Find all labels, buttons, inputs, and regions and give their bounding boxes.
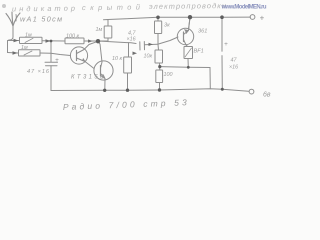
wire: R7 bottom to R8 top bbox=[159, 63, 161, 70]
capacitor C1 47×16 (electrolytic, left) bbox=[45, 61, 58, 63]
wire: BF1 bottom down bbox=[187, 59, 189, 68]
wire: R8 bottom to ground bbox=[159, 83, 161, 91]
svg-text:47: 47 bbox=[231, 58, 238, 64]
svg-text:+: + bbox=[55, 57, 59, 64]
title: индикатор скрытой электропроводки bbox=[12, 1, 226, 13]
wire: top row between R1 and R3 bbox=[42, 40, 65, 42]
arrow on bottom row bbox=[13, 51, 18, 54]
wire: left vertical between rows bbox=[7, 41, 9, 53]
resistor R2 1М (bottom left horizontal) bbox=[19, 50, 41, 56]
resistor R5 10к (vertical mid) bbox=[124, 57, 132, 73]
svg-text:BF1: BF1 bbox=[194, 49, 204, 55]
headphone BF1 bbox=[184, 47, 193, 59]
junction dots bbox=[50, 15, 224, 92]
wire: junction to C2 bbox=[98, 41, 136, 44]
wire: rail to R6 top bbox=[157, 17, 159, 21]
arrow before node bbox=[46, 39, 51, 42]
collector junction node bbox=[96, 39, 100, 43]
corner speck bbox=[2, 4, 6, 8]
wire: VT3 collector to BF1 bbox=[186, 45, 188, 47]
svg-text:100: 100 bbox=[164, 72, 173, 78]
wire: C2 right to node bbox=[145, 43, 158, 46]
svg-text:10 к: 10 к bbox=[112, 56, 122, 62]
arrowheads bbox=[13, 39, 154, 55]
svg-text:10к: 10к bbox=[144, 54, 153, 60]
transistor VT3 КТ361 bbox=[177, 28, 193, 44]
svg-text:1м: 1м bbox=[25, 33, 32, 39]
wire: R6 bottom to node bbox=[157, 34, 160, 51]
wire: C3 bottom to ground bbox=[221, 56, 223, 90]
resistor R1 1М (top left horizontal) bbox=[20, 37, 43, 43]
svg-text:47 ×16: 47 ×16 bbox=[27, 69, 50, 75]
arrow before R7 node bbox=[149, 43, 154, 46]
svg-text:6в: 6в bbox=[263, 92, 271, 99]
svg-text:электропроводки: электропроводки bbox=[149, 1, 226, 11]
svg-text:×16: ×16 bbox=[127, 37, 136, 43]
terminal - (bottom right) bbox=[249, 89, 254, 94]
transistor VT2 КТ315Б bbox=[94, 61, 113, 80]
svg-text:индикатор: индикатор bbox=[12, 4, 75, 14]
svg-text:3к: 3к bbox=[164, 23, 170, 29]
wire: antenna lead to top row bbox=[8, 25, 13, 41]
wire: node to VT3 base bbox=[159, 37, 179, 44]
svg-text:1м: 1м bbox=[96, 27, 103, 33]
arrow after R3 bbox=[88, 39, 93, 42]
wire: output row y67 bbox=[160, 66, 210, 69]
antenna WA1 bbox=[6, 14, 13, 27]
wire: VT3 emitter to rail bbox=[189, 17, 191, 29]
wire: bottom row R2 to base node bbox=[40, 52, 51, 54]
svg-text:+: + bbox=[224, 41, 228, 48]
wire: rail to C3 top bbox=[221, 17, 223, 51]
resistor R7 10к (vertical mid-right) bbox=[155, 50, 163, 63]
svg-text:+: + bbox=[260, 14, 265, 23]
svg-text:1м: 1м bbox=[21, 45, 28, 51]
wire: top rail feed of R4 bbox=[104, 20, 109, 27]
resistor R4 1м (vertical, under top rail) bbox=[104, 26, 112, 38]
wire: bottom row left bbox=[8, 52, 19, 55]
wire: R4 bottom to junction row bbox=[98, 38, 108, 41]
wire: right drop to ground bbox=[209, 68, 211, 89]
ground dot R8 bbox=[158, 88, 161, 91]
node after R1 bbox=[50, 40, 53, 43]
svg-text:×16: ×16 bbox=[229, 65, 238, 71]
arrow on top row bbox=[14, 39, 19, 43]
node BF1 bottom bbox=[187, 66, 190, 69]
ground dot R5 bbox=[126, 89, 129, 92]
rail dot at C3 bbox=[220, 15, 224, 19]
transistor VT1 КТ315Б bbox=[70, 47, 87, 64]
arrow at R5 top bbox=[133, 52, 138, 56]
ground rail bbox=[51, 89, 249, 92]
ground dot VT2 bbox=[103, 89, 106, 92]
svg-text:скрытой: скрытой bbox=[82, 3, 140, 13]
wire: top row left bbox=[8, 40, 19, 42]
wire: C1 bottom to ground rail bbox=[50, 66, 52, 91]
wire: R5 bottom to ground bbox=[127, 73, 129, 90]
resistor R8 100 (vertical bottom-right) bbox=[156, 70, 163, 83]
svg-text:100 к: 100 к bbox=[66, 33, 79, 39]
wire: base node to VT1 base bbox=[51, 53, 71, 55]
resistor R6 3к (vertical top) bbox=[155, 21, 162, 34]
ground dot C3 bbox=[221, 88, 224, 91]
node R7/R8 bbox=[158, 65, 161, 68]
svg-text:www.ModelMEN.ru: www.ModelMEN.ru bbox=[221, 5, 267, 11]
rail dot at R6 bbox=[156, 15, 160, 19]
resistor R3 100к (horizontal) bbox=[65, 38, 84, 44]
wire: node vertical x51 bbox=[50, 41, 52, 62]
top rail bbox=[108, 17, 251, 19]
capacitor C2 4,7×16 (coupling) bbox=[139, 42, 141, 50]
svg-text:361: 361 bbox=[198, 29, 207, 35]
wire: corner down to R5 bbox=[128, 43, 130, 57]
rail dot at VT3 bbox=[188, 15, 192, 19]
terminal + (top right) bbox=[250, 15, 255, 20]
wire: top row R3 to junction node bbox=[84, 40, 98, 42]
